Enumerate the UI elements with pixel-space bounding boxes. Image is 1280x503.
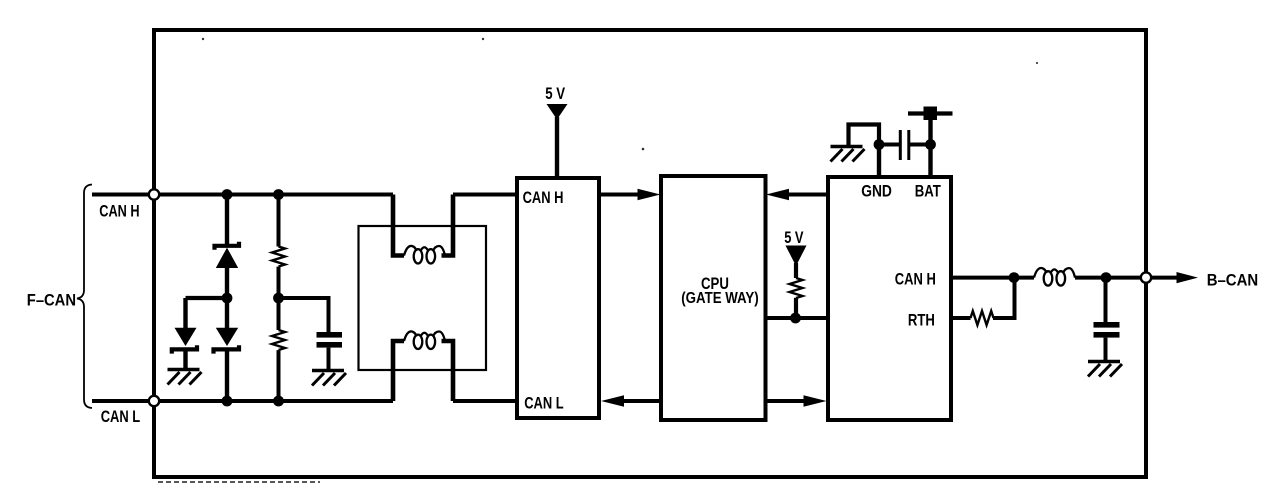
- junction BAT / C2: [925, 139, 936, 150]
- junction CAN L / R2: [273, 396, 284, 407]
- 5V supply (CPU): [786, 246, 807, 279]
- wire CAN L CPU to U1 with arrow: [601, 395, 663, 407]
- resistor R2 (node to CAN L): [272, 298, 285, 401]
- wire CAN H from choke to transceiver: [453, 193, 519, 197]
- resistor R3 (5V pull-up): [790, 278, 803, 318]
- resistor R4 (RTH): [951, 278, 1015, 325]
- CPU U2: [661, 176, 766, 420]
- junction CAN H / RTH: [1009, 272, 1020, 283]
- F-CAN brace: [77, 185, 92, 409]
- wire GND pin: [877, 145, 881, 178]
- ground (D2): [168, 370, 202, 385]
- gateway driver U3: [828, 177, 951, 420]
- zener diode D3 (mid node to CAN L): [214, 298, 240, 401]
- node CAN H (open circle on boundary): [149, 189, 159, 199]
- capacitor C3: [1094, 278, 1120, 360]
- node CAN L (open circle on boundary): [149, 396, 159, 406]
- ground (C1): [312, 371, 346, 386]
- scan speck: [642, 148, 645, 151]
- svg-text:F–CAN: F–CAN: [27, 292, 76, 310]
- svg-text:RTH: RTH: [908, 312, 935, 330]
- svg-text:5 V: 5 V: [545, 85, 565, 104]
- zener diode D1 (CAN H to mid node): [215, 195, 240, 299]
- wire CAN H left rail: [92, 193, 393, 197]
- scan speck: [202, 38, 204, 40]
- resistor R1 (CAN H to mid node): [272, 195, 285, 299]
- junction R3 / RTH net: [790, 313, 801, 324]
- 5V supply (U1): [547, 104, 568, 178]
- svg-text:CAN H: CAN H: [895, 270, 936, 289]
- svg-text:(GATE WAY): (GATE WAY): [681, 290, 759, 307]
- ECU boundary box: [154, 30, 1146, 477]
- svg-text:BAT: BAT: [915, 182, 941, 201]
- wire B-CAN out with arrow: [1152, 272, 1198, 283]
- wire CAN H out of U3: [951, 276, 1034, 280]
- junction L2 / C3: [1101, 272, 1112, 283]
- choke winding L1b (CAN L): [393, 331, 453, 401]
- svg-text:5 V: 5 V: [784, 230, 803, 248]
- node B-CAN (open circle on boundary): [1141, 272, 1151, 282]
- svg-text:GND: GND: [861, 182, 892, 200]
- common-mode choke box: [359, 226, 487, 370]
- wire mid node to D2: [186, 296, 228, 300]
- svg-text:CAN H: CAN H: [99, 202, 139, 221]
- wire CAN H U3 to CPU with arrow: [766, 189, 830, 201]
- junction mid node: [222, 293, 233, 304]
- capacitor C1: [317, 332, 343, 369]
- wire L2 to B-CAN node: [1075, 276, 1141, 280]
- choke winding L1a (CAN H): [393, 195, 453, 264]
- scan artifact dashed line: [158, 481, 320, 483]
- junction CAN H / D1: [222, 189, 233, 200]
- junction GND / C2: [874, 139, 885, 150]
- capacitor C2: [879, 130, 931, 160]
- junction CAN L / D3: [222, 396, 233, 407]
- scan speck: [482, 38, 484, 40]
- wire BAT pin: [928, 112, 932, 177]
- CAN transceiver U1: [517, 178, 599, 418]
- wire CPU to U3 (RTH net): [764, 316, 830, 320]
- battery feed B+: [908, 107, 953, 121]
- svg-text:CAN L: CAN L: [101, 407, 141, 426]
- svg-text:B–CAN: B–CAN: [1207, 272, 1258, 290]
- wire CAN L CPU to U3 with arrow: [764, 395, 827, 407]
- wire CAN L from choke to transceiver: [453, 399, 519, 403]
- wire CAN L left rail: [92, 399, 393, 403]
- ground (C3): [1088, 362, 1122, 377]
- wire node to C1: [279, 298, 329, 332]
- svg-text:CAN H: CAN H: [523, 188, 564, 207]
- wire GND loop to ground: [849, 125, 880, 147]
- junction CAN H / R1: [273, 189, 284, 200]
- wire CAN H U1 to CPU with arrow: [599, 189, 661, 201]
- scan speck: [1036, 62, 1038, 64]
- svg-text:CAN L: CAN L: [524, 394, 564, 413]
- zener diode D2 (mid node to ground): [172, 298, 197, 368]
- junction R1/R2/C1 node: [273, 293, 284, 304]
- inductor L2: [1034, 268, 1075, 286]
- ground (GND pin): [831, 147, 865, 162]
